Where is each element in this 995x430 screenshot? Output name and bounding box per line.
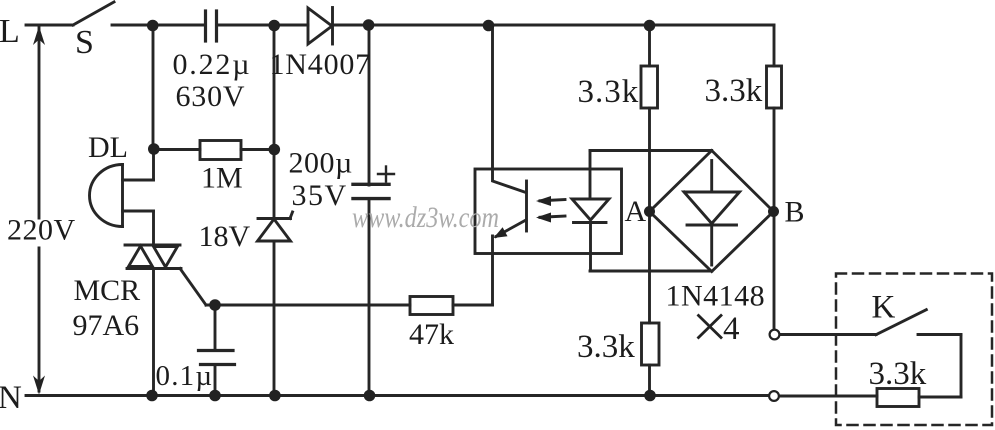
svg-text:0.1µ: 0.1µ	[156, 360, 214, 392]
svg-text:47k: 47k	[409, 318, 454, 351]
svg-text:1N4007: 1N4007	[270, 48, 371, 81]
svg-text:0.22µ: 0.22µ	[173, 48, 252, 81]
svg-text:3.3k: 3.3k	[869, 356, 927, 392]
svg-text:200µ: 200µ	[289, 147, 353, 180]
svg-text:3.3k: 3.3k	[578, 74, 640, 110]
svg-text:1M: 1M	[201, 162, 243, 195]
svg-text:www.dz3w.com: www.dz3w.com	[352, 201, 499, 234]
svg-text:DL: DL	[88, 131, 128, 164]
svg-text:4: 4	[723, 311, 740, 347]
svg-text:1N4148: 1N4148	[666, 280, 766, 313]
svg-text:18V: 18V	[199, 220, 251, 253]
svg-text:97A6: 97A6	[73, 309, 140, 342]
svg-text:N: N	[0, 380, 22, 416]
svg-text:MCR: MCR	[74, 274, 141, 307]
svg-text:3.3k: 3.3k	[577, 329, 635, 365]
svg-text:B: B	[785, 196, 805, 229]
svg-text:A: A	[625, 195, 647, 228]
svg-text:630V: 630V	[176, 80, 246, 113]
svg-text:35V: 35V	[292, 179, 348, 212]
svg-text:3.3k: 3.3k	[705, 73, 763, 109]
svg-text:L: L	[0, 13, 20, 50]
svg-text:S: S	[75, 24, 94, 61]
svg-text:220V: 220V	[7, 214, 76, 247]
svg-text:K: K	[872, 290, 896, 326]
